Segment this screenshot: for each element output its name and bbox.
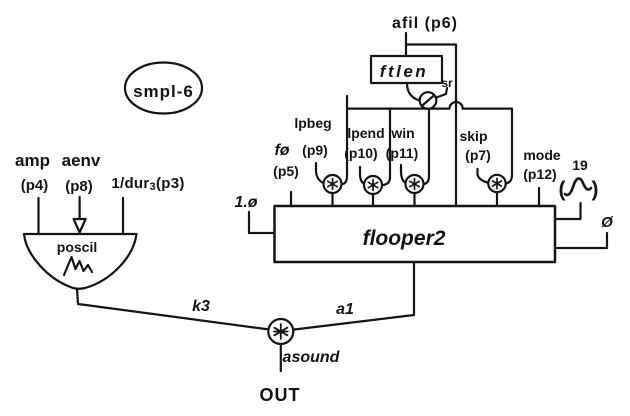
svg-text:(p4): (p4): [21, 177, 49, 194]
wire M2 to flooper2: [372, 194, 374, 206]
net asound: [283, 349, 341, 366]
svg-text:win: win: [390, 125, 414, 141]
svg-text:(p12): (p12): [523, 166, 556, 182]
svg-text:smpl-6: smpl-6: [133, 82, 194, 101]
svg-text:(p7): (p7): [465, 147, 491, 163]
wire mode to flooper2: [538, 188, 540, 206]
svg-text:1/dur3(p3): 1/dur3(p3): [111, 175, 184, 193]
multiplier M3: [406, 175, 424, 193]
svg-text:lpend: lpend: [347, 125, 384, 141]
svg-text:aenv: aenv: [62, 151, 101, 170]
opcode ftlen: [371, 56, 442, 83]
svg-text:afil (p6): afil (p6): [392, 15, 458, 32]
poscil waveform squiggle: [64, 257, 92, 275]
node f0(p5): [273, 142, 299, 179]
wire amp to poscil: [37, 198, 39, 234]
node lpend(p10): [344, 125, 384, 161]
svg-text:(p9): (p9): [302, 142, 328, 158]
node lpbeg(p9): [294, 115, 331, 158]
wire ftlen to divider: [407, 83, 420, 101]
opcode flooper2: [275, 206, 556, 262]
node 1/dur(p3): [111, 175, 184, 193]
svg-text:(p5): (p5): [273, 163, 299, 179]
svg-text:poscil: poscil: [57, 239, 97, 255]
wire f0 to flooper2: [290, 192, 292, 206]
svg-text:amp: amp: [15, 151, 50, 170]
svg-text:(p11): (p11): [386, 145, 419, 161]
wire 1.0 to flooper2: [249, 212, 274, 233]
svg-text:(: (: [559, 178, 566, 201]
constant 0: [601, 214, 614, 231]
wire sr to divider: [435, 88, 447, 98]
wire bus to M2: [382, 109, 390, 186]
svg-text:(p10): (p10): [344, 145, 377, 161]
node win(p11): [386, 125, 419, 161]
constant 1.0: [234, 194, 257, 211]
wire win to M3: [401, 165, 406, 183]
opcode poscil: [24, 234, 137, 289]
wire M1 to flooper2: [331, 193, 333, 206]
node afil(p6): [392, 15, 458, 32]
node skip(p7): [459, 128, 490, 163]
wire M3 to flooper2: [413, 193, 415, 206]
wire skip to M4: [478, 169, 489, 183]
terminal OUT: [260, 385, 301, 405]
multiplier M2: [364, 176, 382, 194]
svg-text:ftlen: ftlen: [380, 62, 428, 81]
table 19 sine: [559, 157, 599, 201]
svg-text:mode: mode: [523, 147, 561, 163]
svg-text:OUT: OUT: [260, 385, 301, 405]
wire M4 to flooper2: [496, 192, 498, 206]
svg-text:a1: a1: [336, 301, 354, 318]
wire 0 to flooper2: [555, 233, 607, 248]
svg-text:fø: fø: [274, 142, 289, 159]
svg-text:Ø: Ø: [601, 214, 614, 231]
multiplier Masound: [268, 319, 293, 344]
divider sr/ftlen: [420, 92, 437, 109]
wire aenv arrow to poscil: [78, 197, 80, 219]
svg-text:): ): [592, 178, 599, 201]
net sr: [441, 76, 453, 90]
multiplier M1: [324, 175, 342, 193]
node mode(p12): [523, 147, 561, 182]
svg-text:lpbeg: lpbeg: [294, 115, 331, 131]
instrument bubble smpl-6: [125, 63, 202, 114]
wire flooper2 to Masound (a1): [293, 262, 414, 330]
svg-text:k3: k3: [192, 298, 210, 315]
node aenv(p8): [62, 151, 101, 195]
wire lpend to M2: [360, 167, 365, 184]
svg-text:flooper2: flooper2: [363, 227, 446, 250]
multiplier M4: [488, 175, 505, 192]
net a1: [336, 301, 354, 318]
bus wire from divider with hump over afil line: [342, 96, 347, 184]
node amp(p4): [15, 151, 50, 194]
wire divider down to M3: [423, 109, 429, 185]
svg-text:19: 19: [572, 157, 588, 173]
wire table19 to flooper2: [555, 203, 581, 219]
wire dur to poscil: [122, 198, 124, 234]
wire asound to OUT: [280, 344, 282, 371]
wire afil to ftlen: [405, 33, 407, 56]
wire poscil to Masound (k3): [77, 289, 269, 329]
svg-text:1.ø: 1.ø: [234, 194, 257, 211]
wire lpbeg to M1: [316, 163, 324, 183]
svg-text:skip: skip: [459, 128, 487, 144]
wire afil to flooper2: [406, 45, 456, 207]
svg-text:asound: asound: [283, 349, 341, 366]
net k3: [192, 298, 210, 315]
svg-text:(p8): (p8): [65, 178, 93, 195]
